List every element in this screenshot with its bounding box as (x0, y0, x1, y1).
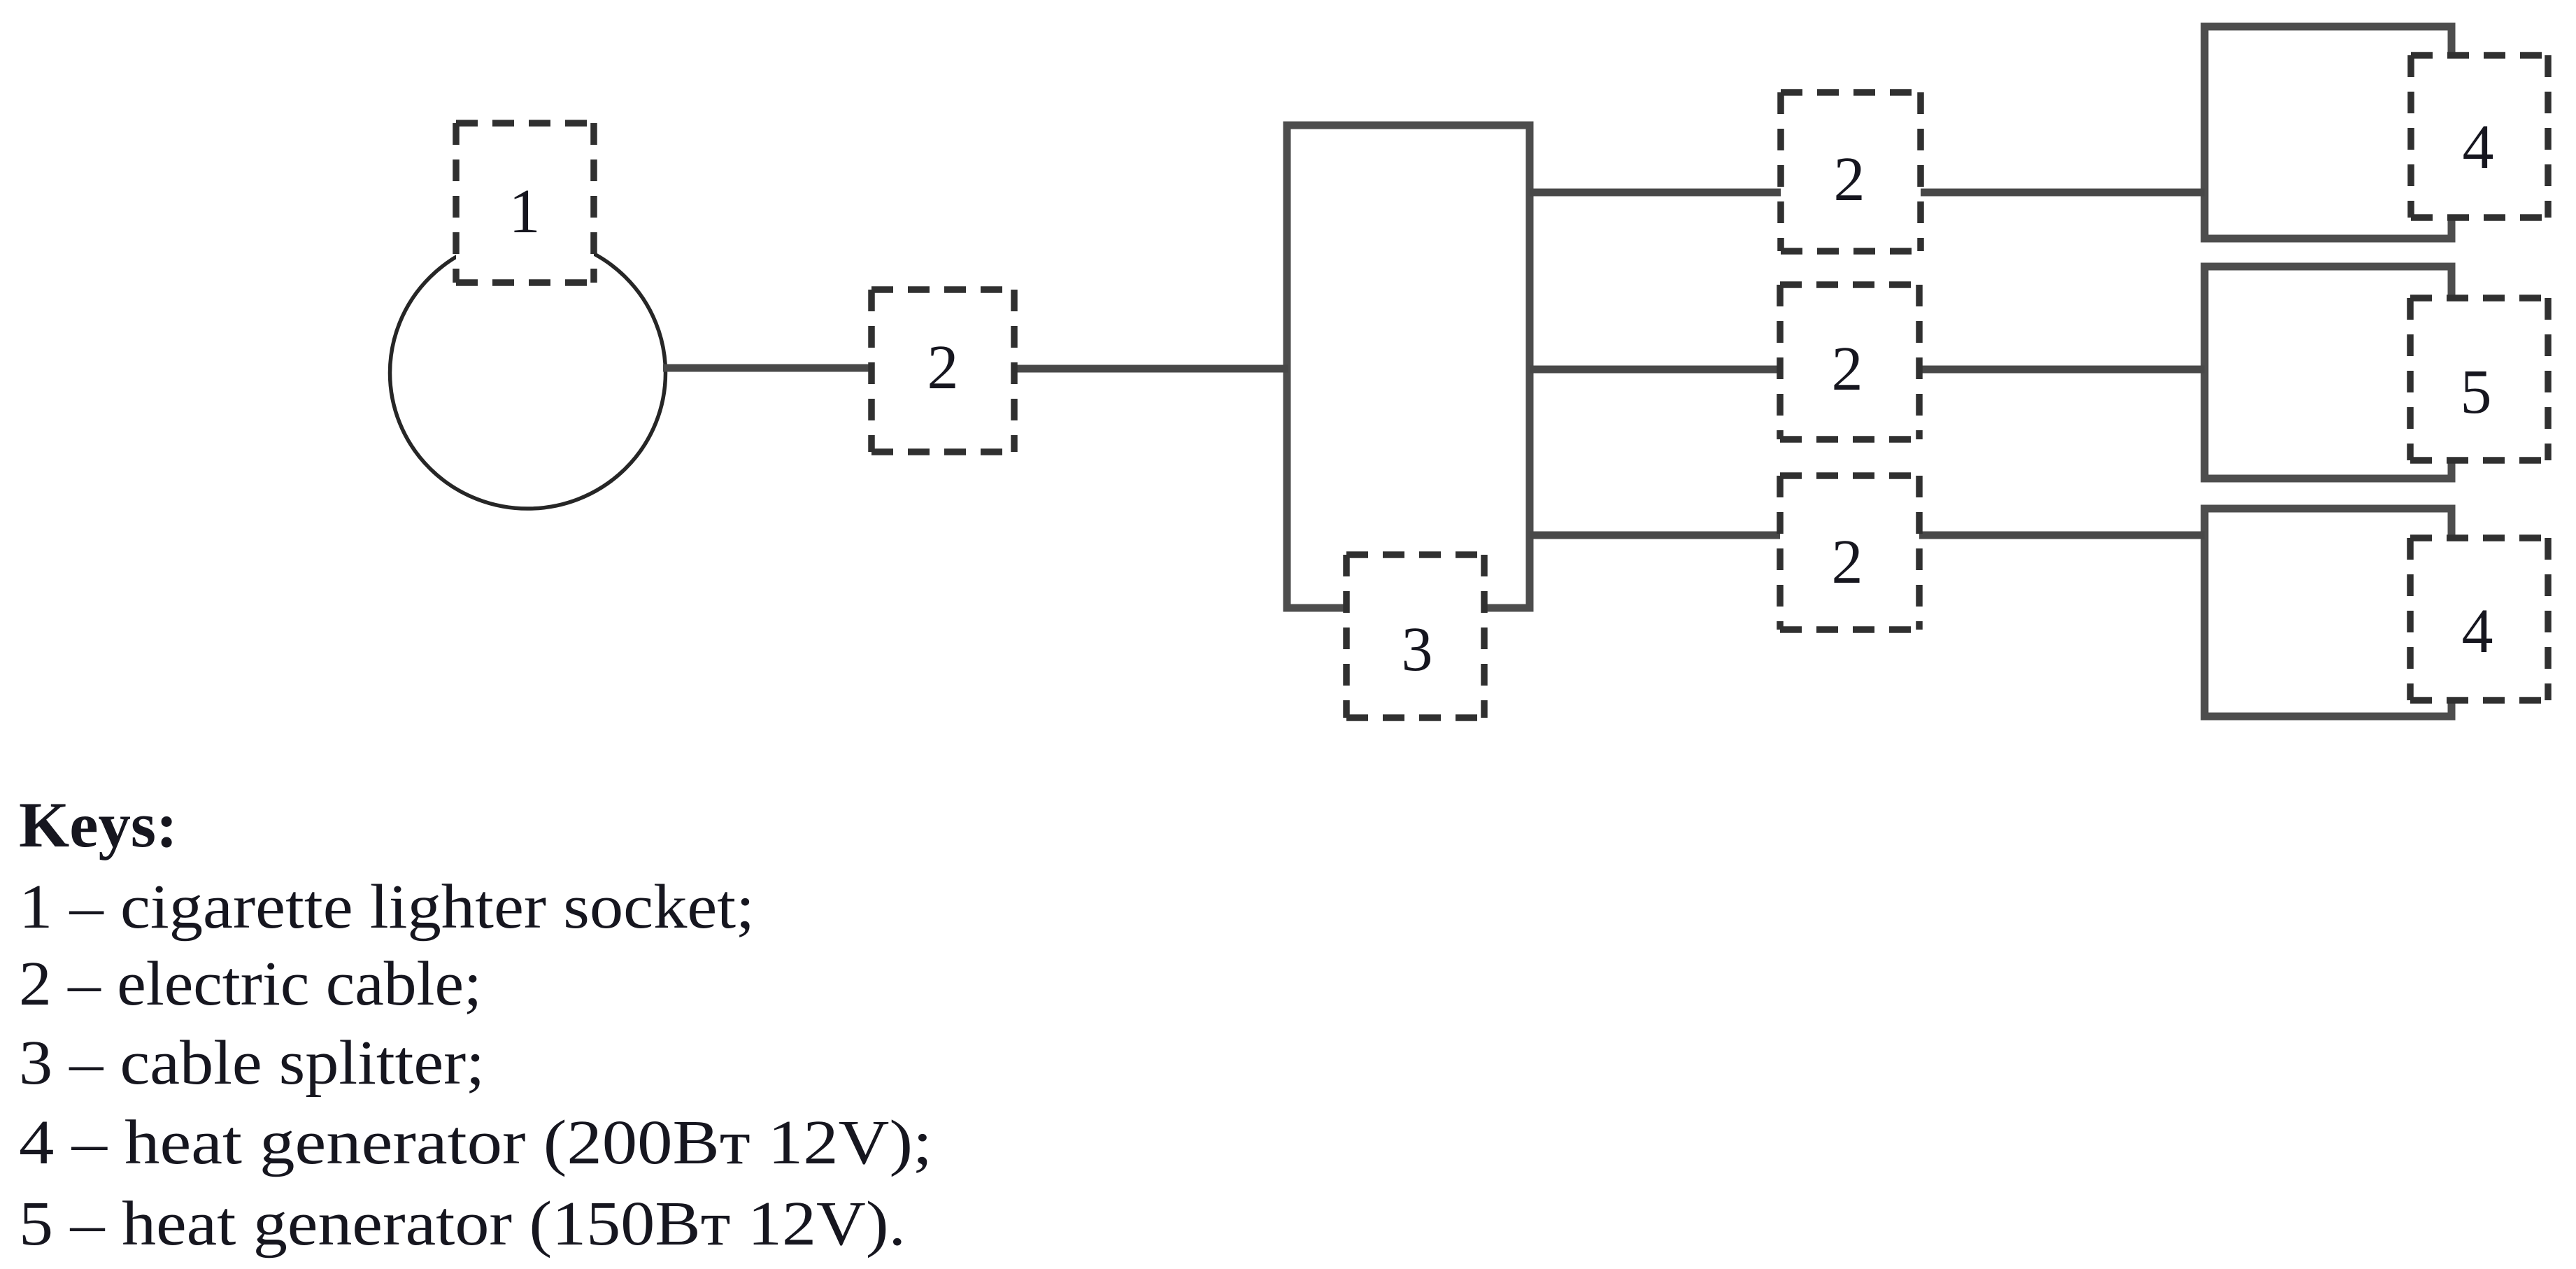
heat generator top (200Bt 12V) (2205, 27, 2452, 239)
svg-text:4: 4 (2463, 113, 2494, 182)
wire splitter to bottom cable (1530, 532, 2205, 539)
svg-text:2: 2 (1832, 334, 1863, 404)
svg-text:Keys:: Keys: (19, 789, 178, 860)
svg-text:4: 4 (2462, 597, 2493, 666)
dashed label box 4 bottom (heat generator 200Bt) (2410, 538, 2548, 700)
svg-text:2: 2 (927, 333, 959, 402)
cable splitter body (1287, 125, 1530, 608)
wire cable 2 to splitter (1011, 365, 1288, 373)
wire splitter to middle cable (1530, 366, 2205, 374)
wire socket to cable 2 (663, 364, 874, 372)
svg-text:3: 3 (1402, 615, 1433, 684)
svg-text:2 – electric cable;: 2 – electric cable; (19, 949, 482, 1019)
dashed label box 4 top (heat generator 200Bt) (2411, 55, 2548, 218)
dashed label box 2 bottom (right column) (1780, 476, 1919, 630)
svg-text:2: 2 (1834, 145, 1865, 214)
dashed label box 1 (socket) (456, 123, 594, 283)
svg-text:5 – heat generator (150Вт 12V): 5 – heat generator (150Вт 12V). (19, 1189, 906, 1259)
dashed label box 2 (first cable) (871, 290, 1014, 452)
dashed label box 5 (heat generator 150Bt) (2410, 298, 2548, 460)
dashed label box 2 top (right column) (1781, 92, 1921, 251)
svg-text:1 – cigarette lighter socket;: 1 – cigarette lighter socket; (19, 872, 755, 942)
svg-text:2: 2 (1832, 527, 1863, 597)
dashed label box 3 (splitter) (1346, 555, 1484, 718)
heat generator bottom (200Bt 12V) (2205, 509, 2452, 716)
cigarette lighter socket (circle) (390, 237, 666, 509)
svg-text:4 – heat generator (200Вт 12V): 4 – heat generator (200Вт 12V); (19, 1108, 932, 1177)
svg-text:3 – cable splitter;: 3 – cable splitter; (19, 1028, 485, 1098)
svg-text:1: 1 (509, 177, 541, 246)
svg-text:5: 5 (2461, 357, 2492, 427)
heat generator middle (150Bt 12V) (2205, 267, 2452, 478)
wire splitter to top cable (1530, 189, 2205, 197)
dashed label box 2 middle (right column) (1780, 285, 1919, 439)
